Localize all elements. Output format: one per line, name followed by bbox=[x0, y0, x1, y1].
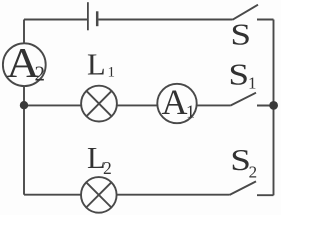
label S1 bbox=[228, 58, 256, 92]
svg-text:1: 1 bbox=[186, 102, 195, 122]
wire S1 contact to right node bbox=[257, 105, 274, 107]
wire switch S contact to corner bbox=[257, 19, 274, 21]
lamp L1 bbox=[81, 86, 117, 122]
label A2 bbox=[6, 39, 45, 87]
svg-text:1: 1 bbox=[248, 74, 257, 93]
node junction left bbox=[20, 101, 28, 109]
label A1 bbox=[162, 82, 196, 122]
label S2 bbox=[230, 144, 257, 182]
svg-text:2: 2 bbox=[249, 163, 258, 182]
label L1 bbox=[87, 48, 115, 82]
svg-text:S: S bbox=[228, 58, 249, 91]
wire bottom: left corner to L2 bbox=[24, 194, 81, 196]
wire middle: node to L1 bbox=[24, 104, 81, 106]
battery cell bbox=[88, 2, 97, 30]
switch S lever bbox=[233, 5, 258, 20]
wire A1 to switch S1 bbox=[197, 104, 231, 106]
wire right vertical bbox=[273, 20, 275, 196]
svg-text:L: L bbox=[87, 48, 106, 82]
svg-text:2: 2 bbox=[35, 62, 46, 86]
svg-text:S: S bbox=[230, 19, 251, 52]
wire left vertical upper bbox=[23, 20, 25, 44]
ammeter A2 circle bbox=[3, 43, 46, 86]
switch S2 lever bbox=[230, 181, 256, 195]
switch S1 lever bbox=[230, 93, 256, 106]
wire battery to switch S bbox=[99, 19, 233, 21]
wire top-left horizontal bbox=[24, 19, 88, 21]
svg-text:2: 2 bbox=[103, 158, 112, 178]
node junction right bbox=[269, 101, 278, 110]
svg-text:A: A bbox=[162, 82, 188, 122]
ammeter A1 circle bbox=[157, 84, 196, 123]
svg-text:1: 1 bbox=[108, 65, 116, 81]
lamp L2 bbox=[81, 177, 117, 213]
label L2 bbox=[87, 141, 112, 178]
wire L2 to switch S2 bbox=[117, 194, 230, 196]
wire S2 contact to bottom-right corner bbox=[257, 194, 274, 196]
wire A2 to left node bbox=[23, 86, 25, 195]
wire L1 to A1 bbox=[117, 104, 157, 106]
